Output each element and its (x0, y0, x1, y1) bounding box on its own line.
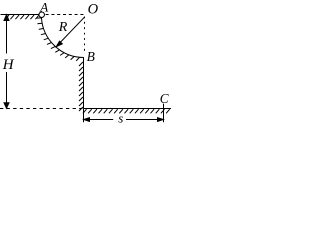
floor hatching (83, 109, 170, 113)
dashed floor-level line extending left from wall (0, 108, 83, 110)
svg-text:s: s (118, 111, 123, 125)
floor line (84, 108, 172, 110)
svg-text:H: H (2, 57, 15, 73)
wall extension line below floor (left end of s) (83, 109, 85, 123)
svg-text:R: R (58, 20, 68, 35)
arc hatching (37, 18, 80, 61)
svg-text:C: C (160, 91, 169, 106)
quarter-circle arc A to B (41, 17, 84, 58)
dotted line A to O (46, 14, 85, 16)
extension line below C through floor (163, 104, 165, 123)
svg-text:B: B (87, 49, 95, 64)
wall hatching (79, 62, 83, 111)
dotted line O to B (84, 17, 86, 54)
dimension H arrow (vertical, double-headed) (4, 15, 9, 109)
vertical wall from B down to floor (83, 57, 85, 109)
radius arrow R from O to arc (56, 17, 85, 47)
point A marker (small circle) (39, 12, 45, 18)
svg-text:A: A (39, 0, 48, 14)
dimension s arrow (horizontal, double-headed) (84, 118, 164, 122)
top surface hatching (5, 15, 39, 19)
top surface line (1, 14, 40, 16)
svg-text:O: O (88, 2, 99, 18)
